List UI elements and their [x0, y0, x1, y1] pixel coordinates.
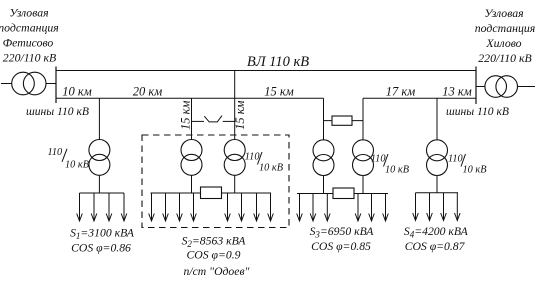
wire: tap to substation 4	[436, 98, 438, 140]
breaker: sectionalizing apparatus on Odoev bus	[201, 187, 222, 199]
svg-text:Хилово: Хилово	[485, 36, 521, 50]
wire: 15 km tap from upper line to Odoev T2	[234, 71, 236, 141]
dashed boundary of п/ст Одоев	[142, 135, 289, 228]
svg-text:10 кВ: 10 кВ	[259, 163, 284, 174]
wire: jumper between drops of substation 3	[324, 120, 364, 122]
svg-text:Узловая: Узловая	[484, 6, 523, 20]
svg-text:COS φ=0.87: COS φ=0.87	[405, 240, 466, 253]
wire: left lead into Fetisovo transformer	[1, 83, 12, 85]
svg-text:S4=4200 кВА: S4=4200 кВА	[404, 225, 469, 240]
svg-text:10 кВ: 10 кВ	[463, 165, 488, 176]
wire: Khilovo busbar to transformer	[476, 86, 485, 88]
wire: Fetisovo transformer to 110 kV busbar	[46, 83, 56, 85]
svg-text:20 км: 20 км	[133, 85, 162, 99]
bus: Khilovo 110 kV busbar	[475, 67, 477, 105]
svg-text:COS φ=0.86: COS φ=0.86	[71, 242, 131, 255]
breaker: sectionalizing apparatus on substation 3 bus	[333, 188, 354, 199]
bus: Fetisovo 110 kV busbar	[55, 67, 57, 104]
wire: Odoev T1 to 10 kV bus	[191, 175, 193, 193]
wire: substation 4 transformer to bus	[436, 176, 438, 193]
value label: 110/10 кВ at substation 4	[448, 154, 487, 176]
load feeder arrows of substation 4	[413, 193, 460, 221]
svg-text:15 км: 15 км	[178, 100, 192, 129]
svg-text:110: 110	[245, 152, 261, 163]
transformer: Odoev T2, 110/10 kV	[224, 140, 245, 176]
svg-text:10 кВ: 10 кВ	[65, 160, 90, 171]
svg-text:110: 110	[371, 154, 387, 165]
load feeder arrows of substation 3	[297, 194, 389, 222]
svg-text:шины 110 кВ: шины 110 кВ	[26, 105, 89, 118]
value label: 110/10 кВ at Odoev	[245, 152, 284, 174]
svg-text:Узловая: Узловая	[9, 6, 48, 20]
svg-text:S3=6950 кВА: S3=6950 кВА	[310, 225, 375, 240]
wire: jumper between 15 km branches, left part	[192, 120, 205, 122]
svg-text:Фетисово: Фетисово	[3, 35, 54, 49]
svg-text:10 км: 10 км	[62, 85, 91, 99]
bus: substation 1 10 kV bus	[80, 192, 125, 194]
svg-text:COS φ=0.9: COS φ=0.9	[187, 249, 241, 262]
svg-text:S1=3100 кВА: S1=3100 кВА	[70, 227, 135, 242]
transformer: Khilovo 220/110 kV (two overlapping circles)	[485, 76, 518, 98]
svg-text:п/ст "Одоев": п/ст "Одоев"	[184, 265, 250, 278]
load feeder arrows of substation 1	[77, 193, 127, 221]
wire: substation 3 T1 to bus	[323, 176, 325, 194]
transformer: substation 3 T2, 110/10 kV	[353, 140, 374, 176]
wire: lower 110 kV line, segment Fetisovo to Odoev loop-in	[56, 97, 324, 99]
svg-text:подстанция: подстанция	[475, 21, 536, 35]
svg-text:110: 110	[48, 147, 64, 158]
svg-text:COS φ=0.85: COS φ=0.85	[311, 240, 371, 253]
switch: normally-open point in jumper	[204, 116, 222, 122]
svg-text:10 кВ: 10 кВ	[385, 165, 410, 176]
transformer: substation 4, 110/10 kV	[427, 140, 448, 176]
svg-text:15 км: 15 км	[233, 100, 247, 129]
wire: upper 110 kV overhead line	[56, 70, 476, 72]
svg-text:ВЛ 110 кВ: ВЛ 110 кВ	[247, 54, 309, 70]
wire: right lead out of Khilovo transformer	[518, 86, 536, 88]
value label: 110/10 кВ at substation 1	[48, 147, 90, 171]
svg-text:220/110 кВ: 220/110 кВ	[478, 51, 531, 65]
node: Khilovo substation title	[475, 6, 536, 65]
wire: Odoev T2 to 10 kV bus	[234, 175, 236, 193]
transformer: substation 1, 110/10 kV	[89, 140, 110, 176]
value label: 110/10 кВ at substation 3	[371, 154, 410, 176]
bus: substation 3 10 kV bus	[297, 193, 388, 195]
svg-text:220/110 кВ: 220/110 кВ	[3, 51, 56, 65]
svg-text:110: 110	[448, 154, 464, 165]
transformer: substation 3 T1, 110/10 kV	[313, 140, 334, 176]
wire: 15 km tap from lower line to Odoev T1	[191, 98, 193, 140]
wire: lower 110 kV line, segment loop-out to Khilovo	[363, 97, 476, 99]
svg-text:15 км: 15 км	[264, 85, 293, 99]
svg-text:13 км: 13 км	[442, 85, 471, 99]
svg-text:S2=8563 кВА: S2=8563 кВА	[182, 235, 247, 250]
transformer: Odoev T1, 110/10 kV	[181, 140, 202, 176]
wire: loop-in drop to substation 3 T1	[323, 98, 325, 140]
wire: loop-out drop to substation 3 T2	[362, 98, 364, 140]
load feeder arrows of Odoev	[149, 193, 274, 221]
wire: substation 1 transformer to 10 kV bus	[98, 175, 100, 193]
breaker: apparatus in substation 3 jumper	[332, 116, 352, 125]
svg-text:шины 110 кВ: шины 110 кВ	[446, 105, 509, 118]
wire: tap to substation 1	[98, 98, 100, 140]
wire: substation 3 T2 to bus	[362, 176, 364, 194]
wire: jumper between 15 km branches, right part	[223, 120, 235, 122]
svg-text:подстанция: подстанция	[0, 20, 59, 34]
bus: substation 4 10 kV bus	[416, 192, 459, 194]
bus: Odoev 10 kV bus	[151, 192, 272, 194]
node: Fetisovo substation title	[0, 6, 59, 65]
transformer: Fetisovo 220/110 kV (two overlapping circles)	[12, 72, 46, 95]
svg-text:17 км: 17 км	[386, 85, 415, 99]
